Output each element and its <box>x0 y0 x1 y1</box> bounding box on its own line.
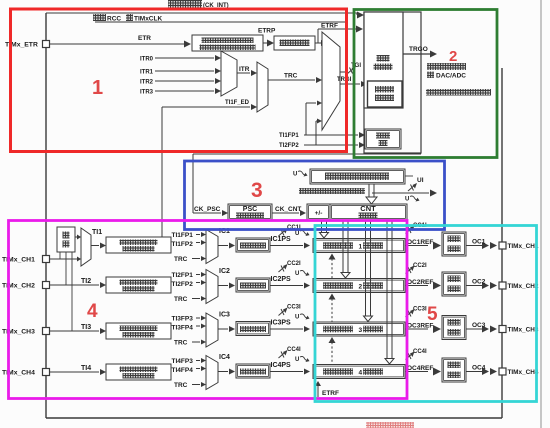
svg-text:CK_PSC: CK_PSC <box>194 206 221 213</box>
svg-text:U: U <box>405 197 409 203</box>
svg-text:OC2REF: OC2REF <box>407 279 433 286</box>
svg-text:TGI: TGI <box>351 63 361 69</box>
svg-text:TI1FP2: TI1FP2 <box>172 241 194 248</box>
svg-text:1: 1 <box>359 244 363 251</box>
svg-text:IC1PS: IC1PS <box>271 236 292 243</box>
svg-text:TRGI: TRGI <box>337 77 352 83</box>
svg-text:TIMx_CH3: TIMx_CH3 <box>2 329 35 336</box>
svg-text:OC1: OC1 <box>472 239 486 246</box>
svg-text:TI1FP1: TI1FP1 <box>279 133 299 139</box>
svg-text:ETRF: ETRF <box>322 390 339 397</box>
svg-text:CC4I: CC4I <box>413 349 427 355</box>
svg-text:ITR0: ITR0 <box>140 57 154 63</box>
svg-text:TI3: TI3 <box>81 324 91 331</box>
svg-text:IC2PS: IC2PS <box>271 276 292 283</box>
svg-text:TRC: TRC <box>284 73 298 80</box>
svg-text:3: 3 <box>359 327 363 334</box>
svg-text:ETR: ETR <box>138 35 151 42</box>
svg-text:CC3I: CC3I <box>287 305 301 311</box>
svg-text:CK_CNT: CK_CNT <box>275 206 301 213</box>
svg-text:TI2FP2: TI2FP2 <box>279 143 299 149</box>
svg-text:TRC: TRC <box>174 382 188 389</box>
svg-text:TIMx_CH4: TIMx_CH4 <box>508 369 539 376</box>
svg-text:CC2I: CC2I <box>287 261 301 267</box>
svg-text:4: 4 <box>87 301 98 322</box>
svg-text:TIMx_CH3: TIMx_CH3 <box>508 327 539 334</box>
svg-text:OC3: OC3 <box>472 322 486 329</box>
svg-text:ITR1: ITR1 <box>140 70 154 76</box>
svg-text:UI: UI <box>417 177 424 184</box>
svg-text:ETRP: ETRP <box>258 28 276 35</box>
svg-text:IC2: IC2 <box>219 268 230 275</box>
svg-text:U: U <box>295 231 299 237</box>
svg-text:TIMx_CH2: TIMx_CH2 <box>508 283 539 290</box>
svg-text:TRGO: TRGO <box>409 46 428 53</box>
svg-text:TI1: TI1 <box>92 229 102 236</box>
svg-text:3: 3 <box>251 179 263 202</box>
svg-text:TRC: TRC <box>174 256 188 263</box>
svg-text:CC4I: CC4I <box>287 347 301 353</box>
svg-text:2: 2 <box>359 284 363 291</box>
svg-text:DAC/ADC: DAC/ADC <box>436 73 466 80</box>
svg-text:IC4PS: IC4PS <box>271 362 292 369</box>
svg-text:TI4: TI4 <box>81 365 91 372</box>
svg-text:IC3PS: IC3PS <box>271 320 292 327</box>
svg-text:ITR3: ITR3 <box>140 90 154 96</box>
svg-text:U: U <box>295 357 299 363</box>
svg-text:OC2: OC2 <box>472 279 486 286</box>
svg-text:TIMx_CH1: TIMx_CH1 <box>508 243 539 250</box>
svg-text:IC4: IC4 <box>219 354 230 361</box>
svg-text:OC4: OC4 <box>472 365 486 372</box>
svg-text:TI2: TI2 <box>81 278 91 285</box>
svg-text:1: 1 <box>92 77 103 99</box>
svg-text:TIMx_CH4: TIMx_CH4 <box>2 370 35 377</box>
svg-text:U: U <box>295 271 299 277</box>
svg-text:TI2FP1: TI2FP1 <box>172 272 194 279</box>
svg-text:ETRF: ETRF <box>321 23 338 30</box>
svg-text:ITR2: ITR2 <box>140 80 154 86</box>
svg-text:TI3FP4: TI3FP4 <box>172 325 194 332</box>
svg-text:CC2I: CC2I <box>413 263 427 269</box>
svg-text:TIMx_CH2: TIMx_CH2 <box>2 283 35 290</box>
svg-text:TI4FP3: TI4FP3 <box>172 358 194 365</box>
svg-text:TI1FP1: TI1FP1 <box>172 232 194 239</box>
svg-text:CNT: CNT <box>360 204 376 213</box>
svg-text:2: 2 <box>449 48 457 65</box>
svg-text:TI3FP3: TI3FP3 <box>172 316 194 323</box>
svg-text:OC1REF: OC1REF <box>407 239 433 246</box>
svg-text:PSC: PSC <box>243 206 257 213</box>
svg-text:U: U <box>295 315 299 321</box>
svg-text:CC3I: CC3I <box>413 307 427 313</box>
svg-text:TI4FP4: TI4FP4 <box>172 367 194 374</box>
svg-text:+/-: +/- <box>315 210 323 217</box>
svg-text:5: 5 <box>427 304 438 325</box>
svg-text:TIMxCLK: TIMxCLK <box>134 16 162 23</box>
svg-text:RCC: RCC <box>107 16 121 23</box>
svg-text:TRC: TRC <box>174 340 188 347</box>
svg-text:4: 4 <box>359 370 363 377</box>
svg-text:OC4REF: OC4REF <box>407 365 433 372</box>
svg-text:TIMx_CH1: TIMx_CH1 <box>2 257 35 264</box>
svg-text:TRC: TRC <box>174 296 188 303</box>
svg-text:ITR: ITR <box>239 66 250 73</box>
svg-text:U: U <box>293 172 297 178</box>
svg-text:TI1F_ED: TI1F_ED <box>225 100 250 106</box>
svg-text:TI2FP2: TI2FP2 <box>172 281 194 288</box>
svg-text:IC3: IC3 <box>219 312 230 319</box>
